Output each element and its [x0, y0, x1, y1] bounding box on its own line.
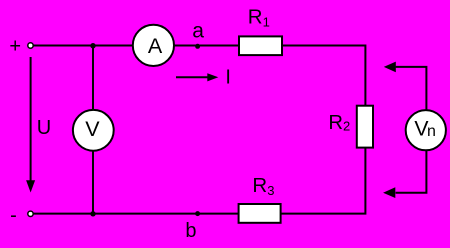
resistor R3 — [239, 204, 281, 223]
junction bottom (V branch) — [90, 211, 95, 216]
svg-text:R2: R2 — [328, 112, 350, 134]
resistor R1 — [239, 36, 282, 55]
Vn pointer arrow bottom — [383, 150, 426, 198]
node a dot — [195, 44, 200, 49]
terminal + (open circle) — [28, 43, 33, 48]
svg-text:A: A — [148, 34, 163, 58]
wire from top junction down to voltmeter — [92, 46, 94, 111]
svg-text:a: a — [192, 19, 204, 42]
wire from voltmeter down to bottom junction — [92, 151, 94, 214]
svg-text:V: V — [85, 117, 100, 141]
terminal - (open circle) — [28, 211, 33, 216]
node b dot — [195, 211, 200, 216]
current arrow I — [176, 73, 218, 81]
resistor R2 — [357, 106, 373, 148]
svg-text:b: b — [185, 220, 196, 242]
wire from R3 to node b and - terminal — [33, 213, 239, 215]
wire from R1 to top-right corner down to R2 — [282, 46, 366, 107]
junction top (V branch) — [90, 43, 95, 48]
wire from + terminal to ammeter — [33, 45, 133, 47]
svg-text:U: U — [37, 117, 51, 139]
null-voltmeter Vn — [406, 110, 446, 150]
voltage arrow U — [26, 57, 35, 193]
wire from ammeter to node a and R1 — [174, 45, 240, 47]
svg-text:R1: R1 — [248, 5, 270, 29]
svg-text:+: + — [9, 36, 21, 58]
Vn pointer arrow top — [384, 62, 427, 111]
svg-text:I: I — [225, 67, 231, 89]
svg-text:-: - — [10, 204, 17, 226]
svg-text:R3: R3 — [252, 174, 274, 198]
voltmeter U2 — [73, 110, 114, 151]
ammeter U1 — [133, 25, 174, 66]
wire from R2 to bottom-right corner to R3 — [280, 148, 365, 214]
